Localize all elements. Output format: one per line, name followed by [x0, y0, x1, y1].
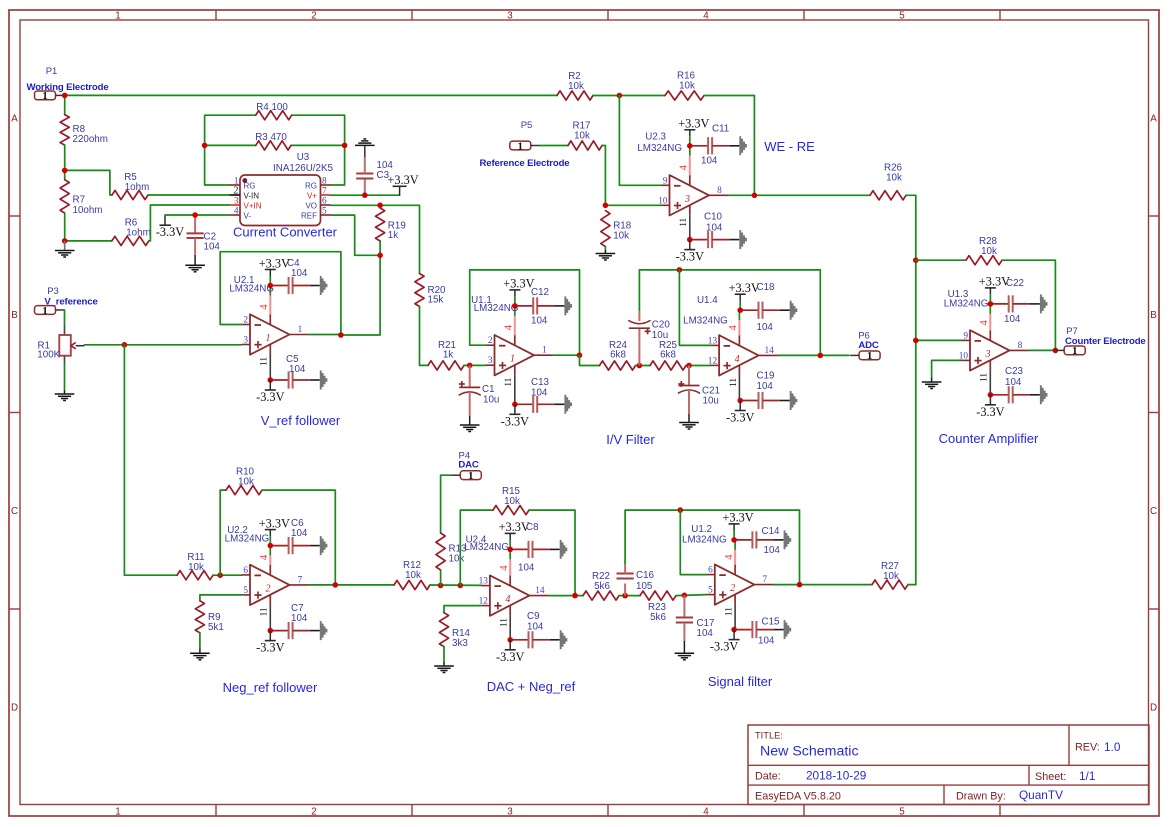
svg-text:Counter Electrode: Counter Electrode: [1065, 336, 1146, 347]
junction C12: [512, 303, 518, 309]
capacitor C13: [515, 377, 572, 414]
junction C23: [988, 392, 994, 398]
ground at R9: [190, 652, 210, 654]
svg-text:C16: C16: [636, 570, 655, 581]
svg-text:11: 11: [504, 377, 514, 386]
capacitor C15: [734, 617, 791, 647]
wire R1 to ground: [64, 364, 66, 390]
connector P1: [26, 66, 108, 102]
net flag -3.3V at U3 pin4: [156, 215, 184, 239]
wire R1 wiper to U2.1 pin3: [85, 344, 242, 346]
svg-text:4: 4: [703, 806, 709, 817]
junction R24-C20: [637, 363, 643, 369]
junction C2: [192, 212, 198, 218]
label U1.3: [944, 289, 989, 310]
capacitor C12: [515, 287, 572, 327]
svg-text:10k: 10k: [568, 81, 584, 92]
resistor R4: [256, 102, 292, 120]
svg-text:4: 4: [727, 325, 739, 331]
junction rail-pin9: [913, 338, 919, 344]
potentiometer R1: [37, 326, 84, 364]
svg-text:LM324NG: LM324NG: [944, 299, 989, 310]
svg-text:11: 11: [500, 618, 510, 627]
svg-text:1: 1: [468, 470, 474, 482]
svg-text:1: 1: [867, 350, 873, 362]
resistor R27: [872, 561, 908, 589]
junction R23-C17: [682, 593, 688, 599]
wire R11 to U2.2 pin6: [213, 574, 242, 576]
svg-text:3: 3: [684, 194, 690, 205]
resistor R11: [177, 552, 213, 580]
junction U1.3 output: [1053, 348, 1059, 354]
svg-text:6: 6: [243, 566, 248, 576]
svg-text:C3: C3: [377, 170, 390, 181]
junction C19: [737, 398, 743, 404]
label U2.2: [225, 525, 270, 545]
junction U1.4 feedback: [677, 267, 683, 273]
wire R5 to U3 pin2: [148, 194, 230, 196]
svg-text:8: 8: [1018, 341, 1023, 351]
svg-text:EasyEDA V5.8.20: EasyEDA V5.8.20: [755, 790, 841, 802]
svg-text:5k6: 5k6: [650, 612, 666, 623]
net flag +3.3V at U3 pin7: [387, 173, 418, 195]
op-amp U2.2: [242, 546, 310, 631]
junction U1.2 output: [797, 582, 803, 588]
capacitor C3: [356, 146, 393, 196]
svg-text:+3.3V: +3.3V: [259, 256, 290, 270]
svg-text:104: 104: [531, 388, 548, 399]
svg-text:ADC: ADC: [858, 340, 879, 351]
label U2.3: [637, 132, 682, 155]
svg-text:1.0: 1.0: [1104, 740, 1121, 754]
svg-text:5: 5: [708, 586, 713, 596]
wire net WE row: [65, 94, 557, 96]
svg-text:U2.3: U2.3: [645, 132, 666, 143]
svg-text:104: 104: [527, 622, 544, 633]
label U1.4: [683, 295, 728, 327]
junction P1 node: [62, 93, 68, 99]
svg-text:7: 7: [298, 575, 303, 585]
svg-text:5: 5: [899, 806, 905, 817]
connector P3: [35, 286, 98, 317]
ground at U1.3 pin10: [922, 381, 942, 383]
svg-text:C8: C8: [526, 522, 539, 533]
junction U2.4 output: [572, 593, 578, 599]
wire R28 row: [916, 259, 966, 261]
op-amp U2.1: [242, 286, 310, 381]
wire rail to U1.3 pin9: [916, 339, 962, 341]
svg-text:1: 1: [115, 806, 120, 817]
svg-text:Signal filter: Signal filter: [708, 674, 773, 689]
svg-text:RG: RG: [244, 182, 256, 191]
capacitor C14: [734, 526, 791, 556]
power +3.3V U2.3: [689, 130, 691, 137]
capacitor C16: [617, 563, 655, 596]
wire U1.1 out to R24: [580, 355, 600, 365]
resistor R16: [665, 71, 704, 101]
svg-text:104: 104: [289, 364, 306, 375]
power -3.3V U1.2: [733, 630, 735, 640]
svg-text:104: 104: [1005, 377, 1022, 388]
wire R12 to U2.4 pin13: [430, 584, 481, 586]
svg-text:+3.3V: +3.3V: [387, 173, 418, 187]
wire R7 to ground node: [64, 213, 66, 241]
svg-text:105: 105: [636, 581, 653, 592]
svg-text:11: 11: [980, 373, 990, 382]
svg-text:3: 3: [234, 197, 239, 207]
svg-text:4: 4: [258, 304, 270, 310]
svg-text:1/1: 1/1: [1079, 769, 1095, 783]
svg-text:10u: 10u: [652, 330, 668, 341]
wire U2.2 pin5 to R9: [200, 595, 242, 601]
svg-text:D: D: [1150, 703, 1157, 714]
svg-text:D: D: [11, 703, 18, 714]
ground at C2: [185, 264, 205, 266]
title block: [748, 725, 1149, 805]
svg-text:6k8: 6k8: [610, 350, 626, 361]
svg-text:-3.3V: -3.3V: [156, 225, 184, 239]
svg-text:3: 3: [985, 349, 991, 360]
svg-text:11: 11: [260, 607, 270, 616]
svg-text:104: 104: [697, 628, 714, 639]
svg-text:Working Electrode: Working Electrode: [26, 82, 108, 93]
ground at C1: [460, 424, 480, 426]
wire R19 bottom: [379, 241, 381, 255]
wire R24 to R25: [636, 365, 651, 367]
power +3.3V U1.3: [989, 288, 991, 295]
wire U3 pin6 VO to R20: [331, 205, 420, 273]
resistor R25: [650, 340, 686, 370]
wire U1.4 pin13 feedback: [679, 270, 710, 346]
svg-text:U1.4: U1.4: [697, 295, 718, 306]
svg-text:V_reference: V_reference: [44, 297, 97, 308]
svg-text:B: B: [1150, 310, 1157, 321]
wire U3 pin7 to +3.3V: [331, 194, 400, 196]
svg-text:LM324NG: LM324NG: [225, 534, 270, 545]
wire U2.2 output to R12: [309, 584, 394, 586]
power +3.3V U1.2: [733, 524, 735, 531]
svg-text:+3.3V: +3.3V: [723, 511, 754, 525]
svg-text:R3 470: R3 470: [255, 132, 287, 143]
svg-text:C: C: [1150, 506, 1157, 517]
svg-text:2018-10-29: 2018-10-29: [806, 769, 866, 783]
ground at R1: [55, 393, 75, 395]
resistor R24: [600, 340, 636, 370]
junction C4: [268, 283, 274, 289]
connector P6 ADC: [850, 331, 880, 363]
svg-text:1ohm: 1ohm: [125, 182, 150, 193]
ground at R18: [596, 253, 616, 255]
capacitor C23: [990, 366, 1047, 404]
capacitor C6: [270, 518, 327, 555]
wire R28 to U1.3 output: [1002, 260, 1055, 350]
ground at C17: [675, 652, 695, 654]
svg-text:10: 10: [658, 196, 668, 206]
svg-text:C14: C14: [762, 526, 781, 537]
svg-text:LM324NG: LM324NG: [683, 316, 728, 327]
wire R21 to U1.1 pin3: [464, 364, 486, 366]
svg-text:5: 5: [322, 207, 327, 217]
svg-text:5k6: 5k6: [594, 581, 610, 592]
wire U1.1 feedback: [470, 270, 580, 355]
label U1.2: [682, 524, 727, 545]
resistor R28: [966, 236, 1002, 265]
wire U1.2 pin6 feedback: [680, 510, 706, 574]
svg-text:+3.3V: +3.3V: [503, 277, 534, 291]
svg-text:Neg_ref follower: Neg_ref follower: [223, 680, 318, 695]
svg-text:5k1: 5k1: [208, 622, 224, 633]
resistor R5: [112, 172, 149, 200]
svg-text:A: A: [11, 114, 18, 125]
svg-text:3: 3: [507, 806, 513, 817]
ground at R14: [434, 665, 454, 667]
svg-text:11: 11: [679, 217, 689, 226]
junction C13: [512, 402, 518, 408]
resistor R18: [601, 211, 632, 247]
junction C18: [737, 307, 743, 313]
resistor R15: [493, 486, 529, 515]
wire R26 to counter rail: [906, 195, 916, 584]
svg-text:1: 1: [518, 140, 524, 152]
op-amp U1.4: [708, 310, 778, 400]
svg-text:-3.3V: -3.3V: [710, 640, 738, 654]
wire U2.4 output to R22: [549, 595, 583, 597]
wire R16 to U2.3 output: [704, 96, 754, 196]
svg-text:C19: C19: [757, 371, 775, 382]
wire U1.4 output: [778, 354, 849, 356]
wire R6 to U3 pin3: [149, 205, 230, 241]
wire node to R6: [65, 240, 112, 242]
wire U1.3 pin10 to ground: [932, 360, 962, 378]
resistor R10: [226, 467, 262, 495]
wire U2.2 feedback: [220, 490, 226, 575]
svg-text:1k: 1k: [388, 230, 398, 241]
svg-text:V_ref follower: V_ref follower: [261, 413, 341, 428]
junction R15 feedback node: [458, 583, 464, 589]
wire R13 to node: [440, 570, 442, 585]
junction U2.2 output: [333, 582, 339, 588]
junction R12-R13: [438, 583, 444, 589]
svg-text:1: 1: [298, 325, 303, 335]
svg-text:V-: V-: [244, 212, 252, 221]
svg-text:1ohm: 1ohm: [126, 228, 151, 239]
svg-text:7: 7: [762, 575, 767, 585]
junction U1.1 output: [577, 352, 583, 358]
junction rail-R28: [913, 257, 919, 263]
wire U2.4 feedback: [460, 510, 493, 585]
svg-text:10k: 10k: [504, 496, 520, 507]
svg-text:2: 2: [730, 583, 735, 594]
svg-text:104: 104: [291, 528, 308, 539]
resistor R7: [60, 180, 102, 216]
svg-text:2: 2: [266, 583, 271, 594]
svg-text:11: 11: [725, 607, 735, 616]
svg-text:Current Converter: Current Converter: [233, 225, 338, 240]
svg-text:+3.3V: +3.3V: [259, 516, 290, 530]
capacitor C19: [740, 371, 797, 411]
junction C5: [268, 377, 274, 383]
resistor R12: [394, 560, 430, 590]
svg-text:LM324NG: LM324NG: [474, 303, 519, 314]
junction U1.2 feedback: [678, 507, 684, 513]
wire R23 to U1.2 pin5: [676, 595, 706, 596]
junction R7-R6 node: [62, 238, 68, 244]
wire U2.4 pin12 to R14: [444, 606, 481, 613]
svg-text:-3.3V: -3.3V: [976, 405, 1004, 419]
svg-text:10k: 10k: [238, 477, 254, 488]
wire R17 to U2.3 pin10: [602, 146, 661, 206]
svg-text:6: 6: [708, 566, 713, 576]
svg-text:220ohm: 220ohm: [73, 134, 108, 145]
junction R21-C1: [467, 363, 473, 369]
svg-text:LM324NG: LM324NG: [464, 542, 509, 553]
power -3.3V U2.1: [269, 380, 271, 390]
power +3.3V U1.4: [739, 294, 741, 301]
svg-text:104: 104: [764, 545, 781, 556]
capacitor C1: [459, 365, 500, 425]
connector P4 DAC: [451, 450, 481, 482]
svg-text:104: 104: [531, 316, 548, 327]
ground at C21: [679, 422, 699, 424]
wire R27 to counter rail: [908, 584, 916, 586]
junction C11: [687, 143, 693, 149]
junction V_ref tap: [122, 342, 128, 348]
svg-text:8: 8: [322, 177, 327, 187]
svg-text:3: 3: [488, 356, 493, 366]
capacitor C9: [510, 611, 567, 649]
junction R22-C16: [622, 593, 628, 599]
svg-text:2: 2: [488, 336, 493, 346]
svg-text:DAC + Neg_ref: DAC + Neg_ref: [487, 679, 576, 694]
svg-text:-3.3V: -3.3V: [496, 650, 524, 664]
svg-text:DAC: DAC: [458, 460, 479, 471]
wire R22 to R23: [619, 595, 640, 597]
op-amp U1.1: [486, 306, 554, 404]
junction R11-R10: [217, 572, 223, 578]
svg-text:C18: C18: [757, 282, 776, 293]
wire P3 to R1: [64, 310, 66, 326]
wire U1.1 output: [554, 354, 580, 356]
svg-text:104: 104: [706, 223, 723, 234]
label U2.4: [464, 534, 509, 553]
capacitor C22: [990, 278, 1047, 325]
svg-text:10k: 10k: [405, 570, 421, 581]
svg-text:LM324NG: LM324NG: [229, 284, 274, 295]
svg-text:10k: 10k: [449, 554, 465, 565]
svg-text:104: 104: [757, 381, 774, 392]
svg-text:4: 4: [505, 594, 510, 605]
svg-text:Counter Amplifier: Counter Amplifier: [939, 431, 1039, 446]
svg-text:4: 4: [678, 165, 690, 171]
svg-text:LM324NG: LM324NG: [682, 534, 727, 545]
svg-text:C13: C13: [531, 377, 550, 388]
svg-text:RG: RG: [305, 182, 317, 191]
capacitor C7: [270, 603, 327, 640]
svg-text:5: 5: [899, 10, 905, 21]
svg-text:REV:: REV:: [1075, 742, 1100, 754]
svg-text:-3.3V: -3.3V: [256, 641, 284, 655]
wire R9 to ground: [199, 633, 201, 649]
power +3.3V U2.2: [269, 530, 271, 537]
svg-text:WE - RE: WE - RE: [764, 139, 815, 154]
wire U2.3 output to R26: [729, 194, 871, 196]
svg-text:-3.3V: -3.3V: [256, 390, 284, 404]
wire R15 to U2.4 output: [529, 510, 575, 595]
svg-text:10k: 10k: [613, 231, 629, 242]
junction U2.1 output: [338, 332, 344, 338]
power -3.3V U2.3: [689, 240, 691, 250]
svg-text:104: 104: [518, 563, 535, 574]
resistor R13: [436, 533, 467, 570]
svg-text:C11: C11: [712, 124, 729, 135]
wire node to R5: [65, 170, 112, 195]
label U1.1: [471, 295, 518, 314]
svg-text:+3.3V: +3.3V: [678, 117, 709, 131]
svg-text:INA126U/2K5: INA126U/2K5: [273, 163, 333, 174]
svg-text:Sheet:: Sheet:: [1035, 771, 1066, 783]
resistor R3: [255, 132, 291, 150]
resistor R26: [870, 163, 906, 200]
svg-text:1k: 1k: [443, 350, 453, 361]
resistor R19: [376, 208, 406, 241]
wire U3 pin5 REF: [331, 215, 380, 255]
label U2.1: [229, 275, 274, 295]
svg-text:2: 2: [243, 316, 248, 326]
svg-text:10: 10: [959, 351, 969, 361]
svg-text:2: 2: [233, 186, 238, 197]
connector P5: [480, 120, 570, 169]
svg-text:C12: C12: [531, 287, 549, 298]
junction C7: [268, 628, 274, 634]
svg-text:P5: P5: [521, 120, 533, 131]
svg-text:1: 1: [542, 346, 547, 356]
wire R10 to U2.2 output: [262, 490, 335, 585]
wire R14 to ground: [443, 647, 445, 662]
wire V_ref down to Neg_ref follower: [123, 345, 125, 575]
junction C6: [268, 543, 274, 549]
resistor R2: [557, 71, 593, 100]
svg-text:LM324NG: LM324NG: [637, 143, 682, 154]
wire P5 to R17: [540, 145, 568, 147]
svg-text:13: 13: [479, 577, 489, 587]
svg-text:C22: C22: [1006, 278, 1024, 289]
svg-text:-3.3V: -3.3V: [726, 411, 754, 425]
svg-text:Date:: Date:: [755, 771, 781, 783]
svg-text:10k: 10k: [188, 562, 204, 573]
resistor R23: [640, 591, 676, 623]
svg-text:2: 2: [311, 806, 316, 817]
svg-text:5: 5: [243, 586, 248, 596]
wire P1 to R8: [64, 95, 66, 114]
capacitor C17: [676, 595, 715, 653]
capacitor C20: [629, 310, 670, 366]
power -3.3V U1.3: [989, 395, 991, 405]
wire R4 R3 feedback loop: [205, 115, 256, 185]
resistor R6: [112, 218, 151, 246]
svg-text:R4 100: R4 100: [256, 102, 288, 113]
junction VO-R19: [377, 203, 383, 209]
junction REF node: [377, 253, 383, 259]
resistor R17: [568, 121, 602, 151]
resistor R9: [195, 601, 223, 633]
wire R25 to U1.4 pin12: [686, 365, 711, 367]
svg-text:10k: 10k: [886, 173, 902, 184]
svg-text:104: 104: [1004, 314, 1021, 325]
svg-text:10u: 10u: [483, 395, 499, 406]
junction R3 right: [342, 143, 348, 149]
wire R3 row: [205, 144, 256, 146]
junction C10: [687, 237, 693, 243]
